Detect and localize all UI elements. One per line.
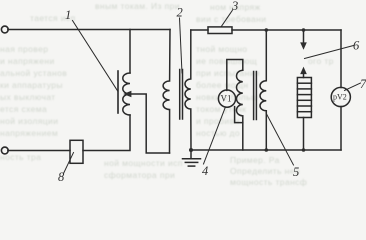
- svg-text:1: 1: [65, 8, 71, 22]
- terminal bottom-left input: [1, 147, 8, 154]
- spark gap 6 lower electrode (up arrow): [300, 67, 307, 75]
- svg-text:6: 6: [353, 39, 360, 53]
- svg-text:8: 8: [58, 170, 65, 184]
- wire kilovoltmeter to bottom bus: [340, 107, 342, 151]
- wire right edge drop to kilovoltmeter 7: [340, 30, 342, 88]
- leader line for label 3: [221, 11, 232, 27]
- transformer T5 core: [253, 72, 255, 120]
- wire from fuse to autotransformer 1 bottom: [83, 115, 130, 151]
- svg-text:3: 3: [231, 0, 238, 13]
- wire drop to autotransformer 1 top: [129, 30, 131, 74]
- spark gap 6 upper electrode (down arrow): [303, 30, 305, 43]
- wire stack bottom to ground bus: [303, 118, 305, 151]
- leader line for label 1: [73, 21, 119, 92]
- svg-text:4: 4: [202, 164, 208, 178]
- junction node bottom bus / T5 primary: [265, 148, 269, 152]
- junction node top bus / T5 primary: [265, 28, 269, 32]
- resistor R3: [208, 27, 232, 34]
- transformer T5 primary winding (right), across HV output: [260, 30, 266, 150]
- wire V1 branch: from V1 up and over to T5 primary top: [227, 60, 243, 91]
- kilovoltmeter pV2 (7): [331, 87, 350, 106]
- wire V1 bottom to T5 primary lead: [235, 107, 243, 123]
- faint bleed-through text from reverse page (decorative): [95, 1, 180, 11]
- junction node bottom bus / stack: [302, 148, 306, 152]
- leader line for label 2: [180, 18, 183, 73]
- junction node bottom bus / ground: [189, 148, 193, 152]
- wire top bus from input terminal to transformer 2 primary: [8, 29, 170, 31]
- svg-text:5: 5: [293, 165, 299, 179]
- voltmeter V1 (4): [218, 90, 235, 107]
- fuse F 8: [70, 140, 83, 163]
- wire bottom grounded bus: [191, 149, 341, 151]
- transformer T2 secondary winding (right): [185, 30, 191, 150]
- transformer T2 core: [179, 70, 181, 120]
- terminal top-left input: [1, 26, 8, 33]
- wire bottom-left bus from terminal to fuse: [8, 150, 70, 152]
- junction node top bus / spark gap: [302, 28, 306, 32]
- wire top HV bus from T2 secondary to right edge: [191, 29, 208, 31]
- protective resistor stack under spark gap: [297, 78, 311, 118]
- ground symbol: [190, 150, 192, 159]
- svg-text:V1: V1: [221, 94, 232, 104]
- wire top HV bus continues: [232, 29, 341, 31]
- svg-text:2: 2: [177, 6, 183, 20]
- leader line for label 8: [64, 153, 74, 174]
- autotransformer T1 winding: [123, 73, 130, 115]
- svg-text:7: 7: [360, 77, 366, 91]
- leader line for label 5: [266, 113, 294, 165]
- leader line for label 7: [345, 83, 361, 91]
- wiper arrow of autotransformer 1: [130, 94, 170, 153]
- leader line for label 6: [305, 46, 354, 59]
- transformer T2 primary winding (left): [163, 30, 170, 154]
- transformer T5 measuring winding (left): [237, 70, 243, 150]
- autotransformer T1 core bar: [117, 71, 119, 113]
- svg-text:pV2: pV2: [333, 93, 347, 102]
- leader line for label 4: [204, 107, 226, 164]
